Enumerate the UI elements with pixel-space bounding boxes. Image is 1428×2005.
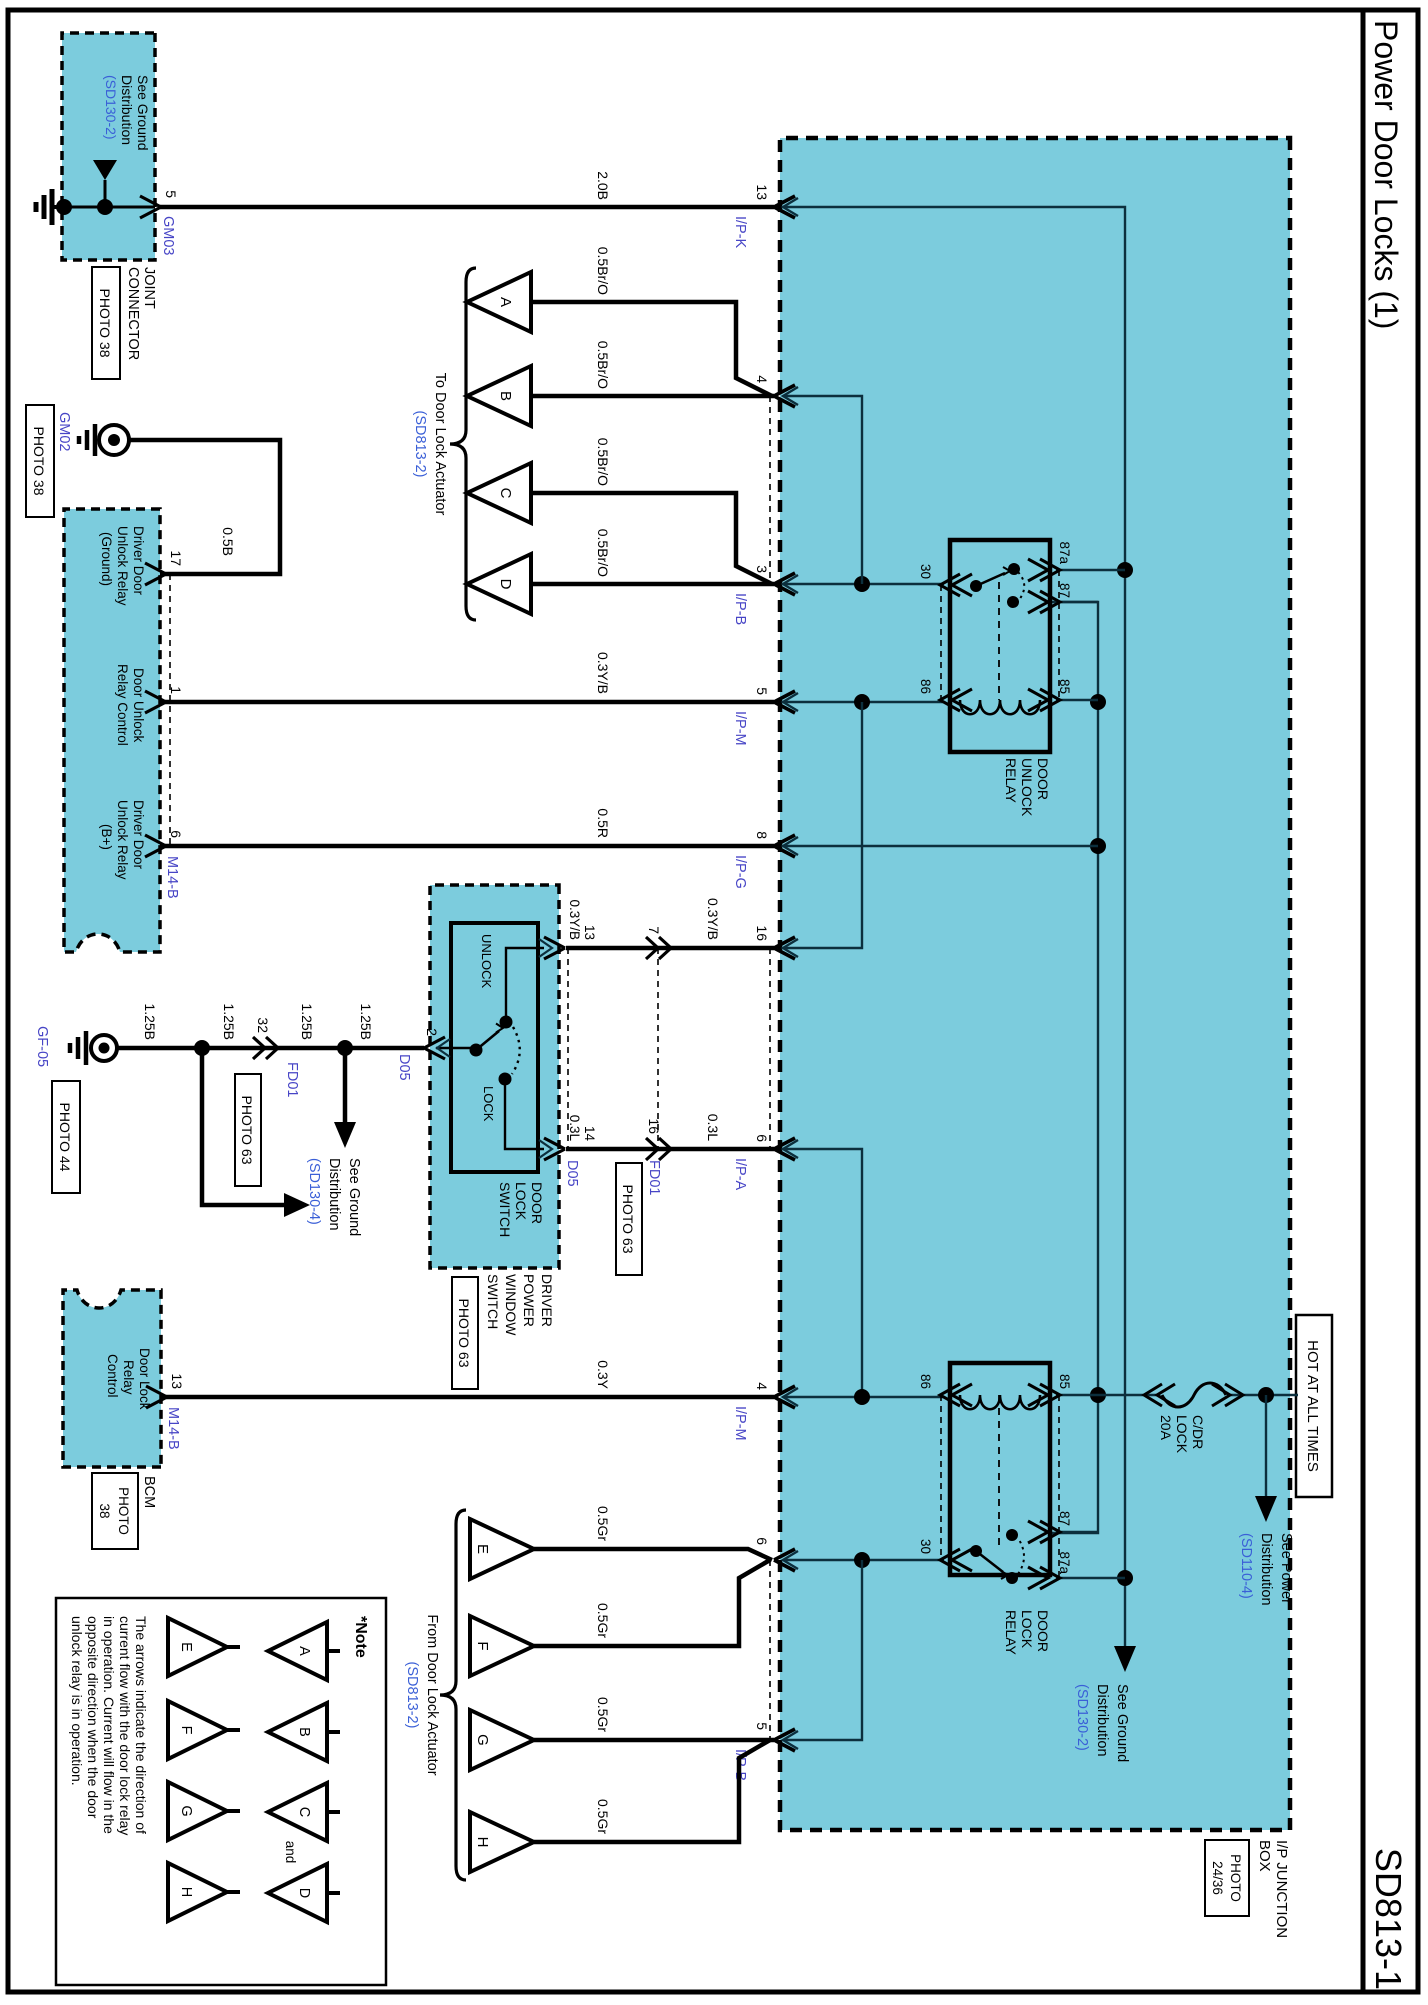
unlock relay pin 30 (952, 574, 972, 596)
svg-text:(SD813-2): (SD813-2) (404, 1662, 420, 1729)
svg-text:0.5Br/O: 0.5Br/O (595, 341, 611, 389)
lock relay contact 87a (1006, 1572, 1018, 1584)
svg-text:87a: 87a (1057, 541, 1072, 564)
svg-text:M14-B: M14-B (165, 1407, 181, 1450)
svg-text:H: H (178, 1887, 194, 1897)
note box (56, 1598, 386, 1985)
svg-text:and: and (283, 1841, 298, 1864)
svg-text:F: F (178, 1726, 194, 1735)
svg-text:E: E (474, 1544, 491, 1554)
svg-text:PHOTO: PHOTO (116, 1487, 131, 1535)
svg-text:PHOTO 63: PHOTO 63 (239, 1096, 255, 1165)
junction dot at power branch (1258, 1387, 1274, 1403)
title separator line (1361, 10, 1366, 1992)
svg-text:Distribution: Distribution (119, 75, 135, 145)
driver power window switch box (cyan) (430, 885, 559, 1268)
triangle F (470, 1616, 534, 1676)
svg-text:Distribution: Distribution (326, 1158, 342, 1231)
svg-text:PHOTO: PHOTO (1228, 1854, 1243, 1902)
triangle G (470, 1710, 534, 1770)
svg-text:I/P-A: I/P-A (732, 1158, 748, 1191)
svg-text:13: 13 (582, 925, 597, 940)
svg-text:See Power: See Power (1278, 1533, 1294, 1604)
lock relay 87 wire (1056, 1531, 1098, 1533)
svg-text:1.25B: 1.25B (142, 1003, 158, 1040)
svg-text:D05: D05 (396, 1054, 412, 1081)
label PHOTO 63 (FD01) (616, 1163, 642, 1275)
wire 0.5B GM02 to M14-B pin 17 (129, 440, 280, 574)
branch to ground distribution arrow (up) (202, 1048, 288, 1205)
svg-text:4: 4 (754, 375, 770, 383)
svg-text:14: 14 (582, 1126, 597, 1142)
svg-text:0.5Br/O: 0.5Br/O (595, 438, 611, 486)
svg-text:2.0B: 2.0B (595, 171, 611, 200)
svg-text:0.3Y/B: 0.3Y/B (595, 652, 611, 694)
HOT AT ALL TIMES box (1296, 1315, 1332, 1497)
M14-B pin 17 (145, 563, 166, 585)
ground distribution arrow (SD130-2, right) (1124, 1640, 1126, 1650)
svg-text:UNLOCK: UNLOCK (1019, 758, 1035, 817)
svg-text:6: 6 (754, 1134, 770, 1142)
wire 0.5Br/O triangle A to pin 4 (531, 302, 772, 396)
fuse feed wire (lock 85 to HOT) (1056, 1394, 1158, 1396)
junction box pin 16 (774, 937, 795, 959)
branch to ground distribution SD130-4 (right arrow) (343, 1048, 348, 1124)
M14-B driver door relay box (cyan, torn right edge) (64, 509, 160, 952)
lock relay 87a wire (1056, 1577, 1125, 1579)
note triangle D (268, 1864, 327, 1922)
label PHOTO 24/36 (1205, 1840, 1249, 1916)
triangle A (467, 272, 531, 332)
svg-text:D: D (497, 579, 514, 590)
svg-text:0.5Gr: 0.5Gr (595, 1799, 611, 1834)
triangle D (467, 554, 531, 614)
wire 0.3Y BCM pin 13 to I/P-M 4 (161, 1395, 774, 1400)
svg-text:E: E (178, 1642, 194, 1652)
wire 0.5Gr triangle G to pin 5 (534, 1738, 774, 1743)
unlock relay mechanical link (998, 582, 1000, 700)
D05 connector grouping dash (567, 948, 569, 1149)
triangle B (467, 366, 531, 426)
svg-text:BOX: BOX (1256, 1840, 1273, 1872)
svg-text:PHOTO 63: PHOTO 63 (456, 1299, 472, 1368)
svg-text:85: 85 (1057, 1374, 1072, 1389)
svg-text:(SD130-4): (SD130-4) (306, 1158, 322, 1225)
svg-text:13: 13 (754, 184, 770, 200)
wire 0.3L pin 6 to switch pin 14 (lock) (566, 1147, 774, 1152)
svg-text:30: 30 (918, 564, 933, 579)
svg-text:DOOR: DOOR (1035, 1610, 1051, 1652)
svg-text:B: B (296, 1727, 312, 1737)
svg-text:Door Unlock: Door Unlock (131, 668, 146, 743)
svg-text:20A: 20A (1158, 1415, 1174, 1441)
lock relay dotted arc (1018, 1538, 1024, 1574)
svg-text:D05: D05 (564, 1160, 580, 1187)
M14-B connector grouping dash (169, 574, 171, 846)
GM03 joint connector box (cyan) (62, 33, 155, 260)
unlock relay pin grouping dash (bottom) (940, 585, 942, 700)
junction box pin 13 I/P-K (774, 196, 795, 218)
junction dot unlock-85 (1090, 694, 1106, 710)
junction dot pin8 net (1090, 838, 1106, 854)
lock relay contact 30 (970, 1545, 982, 1557)
svg-text:A: A (296, 1646, 312, 1656)
svg-text:2: 2 (424, 1028, 440, 1036)
svg-text:CONNECTOR: CONNECTOR (125, 267, 141, 360)
pin 8 internal wire (783, 845, 1098, 847)
unlock relay dotted arc (1018, 572, 1024, 600)
junction dot lock-85/fuse (1090, 1387, 1106, 1403)
svg-text:0.5Gr: 0.5Gr (595, 1697, 611, 1732)
switch pin 2 (D05) (424, 1037, 445, 1059)
svg-text:13: 13 (169, 1373, 185, 1389)
door lock relay box (950, 1363, 1050, 1575)
svg-text:0.3L: 0.3L (567, 1115, 582, 1142)
svg-text:86: 86 (918, 1374, 933, 1389)
svg-text:I/P-K: I/P-K (732, 216, 748, 249)
switch pin 13 (544, 937, 565, 959)
label PHOTO 38 (GM02) (26, 405, 54, 517)
junction box pin 5 I/P-M (774, 691, 795, 713)
pin 16 internal wire (783, 702, 862, 948)
junction dot pin3/pin4 (854, 576, 870, 592)
svg-text:From Door Lock Actuator: From Door Lock Actuator (424, 1614, 440, 1775)
wire 0.5Gr triangle F to pin 6 (534, 1560, 770, 1646)
internal 87/85 net wire (y=330) (1050, 602, 1098, 1533)
connector grouping dash pin4-pin3 (769, 396, 771, 584)
pin 3 internal wire to unlock relay 30 (783, 583, 944, 585)
svg-text:Unlock Relay: Unlock Relay (115, 800, 130, 880)
svg-text:(SD110-4): (SD110-4) (1238, 1533, 1254, 1599)
lock relay pin 87 (1040, 1521, 1060, 1543)
switch pivot contact (470, 1044, 483, 1057)
svg-text:(SD130-2): (SD130-2) (1074, 1684, 1090, 1751)
svg-text:(SD130-2): (SD130-2) (103, 75, 119, 140)
svg-text:PHOTO 38: PHOTO 38 (31, 427, 47, 496)
svg-text:*Note: *Note (352, 1616, 369, 1658)
note triangle B (268, 1703, 327, 1761)
note triangle A (268, 1622, 327, 1680)
unlock relay pin 86 (952, 689, 972, 711)
svg-text:Relay: Relay (121, 1360, 136, 1395)
svg-text:HOT AT ALL TIMES: HOT AT ALL TIMES (1304, 1340, 1321, 1472)
svg-text:0.3L: 0.3L (705, 1114, 721, 1141)
wire 0.5Br/O triangle B to pin 4 (531, 394, 774, 399)
unlock relay 87 wire (1056, 601, 1098, 603)
svg-text:I/P-G: I/P-G (732, 855, 748, 889)
svg-text:Driver Door: Driver Door (131, 526, 146, 596)
unlock relay contact 87 (1007, 596, 1019, 608)
junction box pin 8 I/P-G (774, 835, 795, 857)
svg-text:JOINT: JOINT (141, 267, 157, 309)
connector grouping dash pin16-pin6 (769, 948, 771, 1149)
M14-B pin 6 (145, 835, 166, 857)
pin 5 internal wire (783, 1560, 862, 1740)
triangle C (467, 463, 531, 523)
wire 1.25B switch pin 2 to GF-05 (116, 1046, 424, 1051)
lock relay mechanical link (998, 1395, 1000, 1548)
svg-text:DRIVER: DRIVER (539, 1274, 555, 1327)
inline connector 7 (FD01) (659, 937, 671, 959)
I/P junction box (cyan) (780, 138, 1290, 1830)
note triangle G (168, 1782, 227, 1840)
triangle E (470, 1519, 534, 1579)
svg-text:PHOTO 63: PHOTO 63 (620, 1185, 636, 1254)
svg-text:0.5R: 0.5R (595, 808, 611, 838)
unlock relay 87a wire (1056, 569, 1125, 571)
wire 0.3Y/B pin1 to I/P-M 5 (160, 700, 774, 705)
lock relay pin 87a (1040, 1567, 1060, 1589)
lock relay pin grouping dash (bottom) (940, 1395, 942, 1560)
svg-text:Control: Control (105, 1354, 120, 1398)
svg-text:8: 8 (754, 831, 770, 839)
svg-text:PHOTO 44: PHOTO 44 (57, 1103, 73, 1172)
svg-text:16: 16 (646, 1118, 662, 1134)
junction box pin 4 (774, 385, 795, 407)
svg-text:C/DR: C/DR (1190, 1415, 1206, 1449)
svg-text:Door Lock: Door Lock (137, 1348, 152, 1410)
ground distribution arrow in GM03 (104, 180, 107, 207)
svg-text:0.3Y: 0.3Y (595, 1360, 611, 1389)
svg-text:DOOR: DOOR (529, 1182, 545, 1224)
note triangle F (168, 1701, 227, 1759)
wire 0.5R pin6 to I/P-G 8 (160, 844, 774, 849)
svg-text:Distribution: Distribution (1258, 1533, 1274, 1606)
junction dot pin6A/pin4M (854, 1389, 870, 1405)
svg-text:4: 4 (754, 1382, 770, 1390)
pin 5 internal wire to unlock coil 86 (783, 701, 944, 703)
wire inside GM03 to ground (62, 206, 155, 209)
svg-text:SWITCH: SWITCH (485, 1274, 501, 1329)
svg-text:(Ground): (Ground) (99, 532, 114, 586)
svg-text:The arrows indicate the direct: The arrows indicate the direction of (133, 1616, 149, 1834)
GM03 pin 5 (140, 196, 161, 218)
label PHOTO 38 (BCM) (92, 1473, 138, 1549)
svg-text:(SD813-2): (SD813-2) (412, 411, 428, 478)
svg-text:A: A (497, 297, 514, 307)
svg-text:M14-B: M14-B (164, 856, 180, 899)
BCM pin 13 (146, 1386, 167, 1408)
svg-text:5: 5 (163, 190, 179, 198)
svg-text:G: G (178, 1805, 194, 1816)
lock relay pin grouping dash (top) (1058, 1395, 1060, 1578)
svg-text:I/P-B: I/P-B (732, 593, 748, 625)
unlock relay arm (976, 573, 1005, 586)
switch arm (476, 1031, 499, 1050)
svg-text:RELAY: RELAY (1003, 1610, 1019, 1656)
lock relay arm (976, 1551, 1003, 1572)
svg-text:5: 5 (754, 687, 770, 695)
svg-text:See Ground: See Ground (135, 75, 151, 151)
junction dot 87a-lock (1117, 1570, 1133, 1586)
junction dot pin6B/pin5B (854, 1552, 870, 1568)
chassis ground symbol GM03 (52, 205, 62, 209)
GM02 ground bolt symbol (99, 425, 129, 455)
svg-text:C: C (497, 488, 514, 499)
svg-text:DOOR: DOOR (1035, 758, 1051, 800)
svg-text:GF-05: GF-05 (34, 1026, 50, 1067)
svg-text:See Ground: See Ground (346, 1158, 362, 1236)
svg-text:I/P-M: I/P-M (732, 711, 748, 746)
LOCK contact (499, 1073, 512, 1086)
fuse C/DR LOCK 20A (1162, 1383, 1226, 1407)
label PHOTO 44 (52, 1081, 80, 1193)
junction dot upper branch (337, 1040, 353, 1056)
svg-text:F: F (474, 1641, 491, 1650)
brace To Door Lock Actuator (450, 268, 476, 620)
svg-text:current flow with the door loc: current flow with the door lock relay (117, 1616, 133, 1835)
svg-text:GM03: GM03 (160, 216, 176, 256)
svg-text:0.5B: 0.5B (220, 527, 236, 556)
lock relay pin 86 (952, 1384, 972, 1406)
junction box pin 3 I/P-B (774, 573, 795, 595)
junction dot pin5/pin16 (854, 694, 870, 710)
unlock relay pin grouping dash (top) (1058, 570, 1060, 700)
svg-text:Power Door Locks (1): Power Door Locks (1) (1368, 20, 1404, 329)
wire 2.0B GM03 to pin 13 (160, 205, 774, 210)
wire 0.5Br/O triangle D to pin 3 (531, 582, 774, 587)
unlock relay contact 30 (970, 580, 982, 592)
svg-text:RELAY: RELAY (1003, 758, 1019, 804)
wire 0.5Gr triangle E to pin 6 (534, 1549, 772, 1560)
junction dot 87a-unlock (1117, 562, 1133, 578)
svg-text:G: G (474, 1734, 491, 1746)
svg-text:38: 38 (97, 1503, 112, 1518)
pin 4 internal wire (783, 396, 862, 584)
svg-text:0.5Gr: 0.5Gr (595, 1603, 611, 1638)
BCM box M14-B (cyan, torn left edge) (63, 1290, 161, 1467)
svg-text:LOCK: LOCK (1019, 1610, 1035, 1649)
svg-text:D: D (296, 1888, 312, 1898)
svg-text:H: H (474, 1837, 491, 1848)
unlock relay 85 wire (1056, 699, 1098, 701)
svg-text:Driver Door: Driver Door (131, 800, 146, 870)
svg-text:3: 3 (754, 565, 770, 573)
svg-text:FD01: FD01 (284, 1062, 300, 1097)
lock relay pin 85 (1040, 1384, 1060, 1406)
triangle H (470, 1812, 534, 1872)
lock relay pin 30 (952, 1549, 972, 1571)
svg-text:B: B (497, 391, 514, 401)
M14-B pin 1 (145, 691, 166, 713)
wire 0.3Y/B pin 16 to switch pin 13 (unlock) (566, 946, 774, 951)
svg-text:LOCK: LOCK (481, 1086, 496, 1122)
unlock relay contact 87a (1008, 563, 1020, 575)
label PHOTO 63 (FD01 32) (235, 1074, 261, 1186)
svg-text:in operation. Current will flo: in operation. Current will flow in the (101, 1616, 117, 1834)
pin 4 I/P-M internal wire to lock coil 86 (783, 1396, 944, 1398)
svg-text:5: 5 (754, 1722, 770, 1730)
svg-text:PHOTO 38: PHOTO 38 (97, 289, 113, 358)
lock relay coil (960, 1395, 1040, 1409)
svg-text:GM02: GM02 (56, 412, 72, 452)
svg-text:16: 16 (754, 925, 770, 941)
svg-text:0.3Y/B: 0.3Y/B (705, 898, 721, 940)
svg-text:0.5Gr: 0.5Gr (595, 1506, 611, 1541)
wire 0.5Br/O triangle C to pin 3 (531, 493, 772, 584)
junction box pin 6 I/P-A (774, 1138, 795, 1160)
svg-text:unlock relay is in operation.: unlock relay is in operation. (69, 1616, 85, 1786)
internal ground net wire (87a net, y=303) (783, 207, 1125, 1640)
unlock relay pin 85 (1040, 689, 1060, 711)
svg-text:24/36: 24/36 (1210, 1861, 1225, 1895)
wire 0.5Gr triangle H to pin 5 (534, 1740, 770, 1842)
junction dot arrow branch (97, 199, 113, 215)
switch internal wire from pin 13 to UNLOCK contact (506, 948, 544, 1022)
svg-text:SD813-1: SD813-1 (1368, 1848, 1409, 1990)
svg-text:Relay Control: Relay Control (115, 664, 130, 746)
label PHOTO 38 (GM03) (92, 267, 120, 379)
junction box pin 6 (774, 1549, 795, 1571)
svg-text:6: 6 (754, 1537, 770, 1545)
connector grouping dash pin6-pin5 (769, 1560, 771, 1740)
svg-text:BCM: BCM (141, 1476, 157, 1508)
brace From Door Lock Actuator (440, 1510, 466, 1880)
junction box pin 5 I/P-B (774, 1729, 795, 1751)
svg-text:1.25B: 1.25B (299, 1003, 315, 1040)
switch dotted arc (512, 1027, 520, 1074)
door lock switch inner box (451, 923, 538, 1172)
junction box pin 4 I/P-M (774, 1386, 795, 1408)
note triangle H (168, 1863, 227, 1921)
switch internal wire from pin 14 to LOCK contact (505, 1079, 544, 1149)
svg-text:opposite direction when the do: opposite direction when the door (85, 1616, 101, 1819)
svg-text:0.5Br/O: 0.5Br/O (595, 247, 611, 295)
switch pin 14 (544, 1138, 565, 1160)
svg-text:Unlock Relay: Unlock Relay (115, 526, 130, 606)
label PHOTO 63 (switch) (452, 1277, 478, 1389)
svg-text:1.25B: 1.25B (221, 1003, 237, 1040)
svg-text:32: 32 (255, 1017, 271, 1033)
svg-text:17: 17 (168, 550, 184, 566)
svg-text:UNLOCK: UNLOCK (479, 934, 494, 989)
svg-text:POWER: POWER (521, 1274, 537, 1327)
door unlock relay box (950, 540, 1050, 752)
svg-text:See Ground: See Ground (1114, 1684, 1130, 1762)
svg-text:0.5Br/O: 0.5Br/O (595, 529, 611, 577)
unlock relay coil (960, 700, 1040, 714)
svg-text:FD01: FD01 (646, 1160, 662, 1195)
branch to See Power Distribution (1265, 1395, 1267, 1500)
pin 6 internal wire to lock relay 30 (783, 1559, 944, 1561)
GF-05 ground bolt symbol (91, 1035, 117, 1061)
svg-text:0.3Y/B: 0.3Y/B (567, 899, 582, 940)
lock relay contact 87 (1006, 1529, 1018, 1541)
pin 6 I/P-A internal wire to lock coil net (783, 1149, 862, 1397)
svg-text:86: 86 (918, 679, 933, 694)
svg-text:To Door Lock Actuator: To Door Lock Actuator (432, 373, 448, 516)
svg-text:1.25B: 1.25B (358, 1003, 374, 1040)
note triangle C (268, 1783, 327, 1841)
UNLOCK contact (500, 1016, 513, 1029)
svg-text:WINDOW: WINDOW (503, 1274, 519, 1336)
svg-text:LOCK: LOCK (513, 1182, 529, 1221)
svg-text:Distribution: Distribution (1094, 1684, 1110, 1757)
svg-text:(B+): (B+) (99, 824, 114, 850)
FD01 connector grouping dash (657, 948, 659, 1149)
note triangle E (168, 1618, 227, 1676)
unlock relay pin 87 (1040, 591, 1060, 613)
unlock relay pin 87a (1040, 559, 1060, 581)
svg-text:30: 30 (918, 1539, 933, 1554)
svg-text:LOCK: LOCK (1174, 1415, 1190, 1454)
svg-text:I/P-M: I/P-M (732, 1406, 748, 1441)
inline connector 32 (FD01) (266, 1037, 278, 1059)
switch common wire to pin 2 (436, 1047, 475, 1049)
junction dot lower branch (194, 1040, 210, 1056)
svg-text:SWITCH: SWITCH (497, 1182, 513, 1237)
svg-text:I/P JUNCTION: I/P JUNCTION (1273, 1840, 1290, 1938)
